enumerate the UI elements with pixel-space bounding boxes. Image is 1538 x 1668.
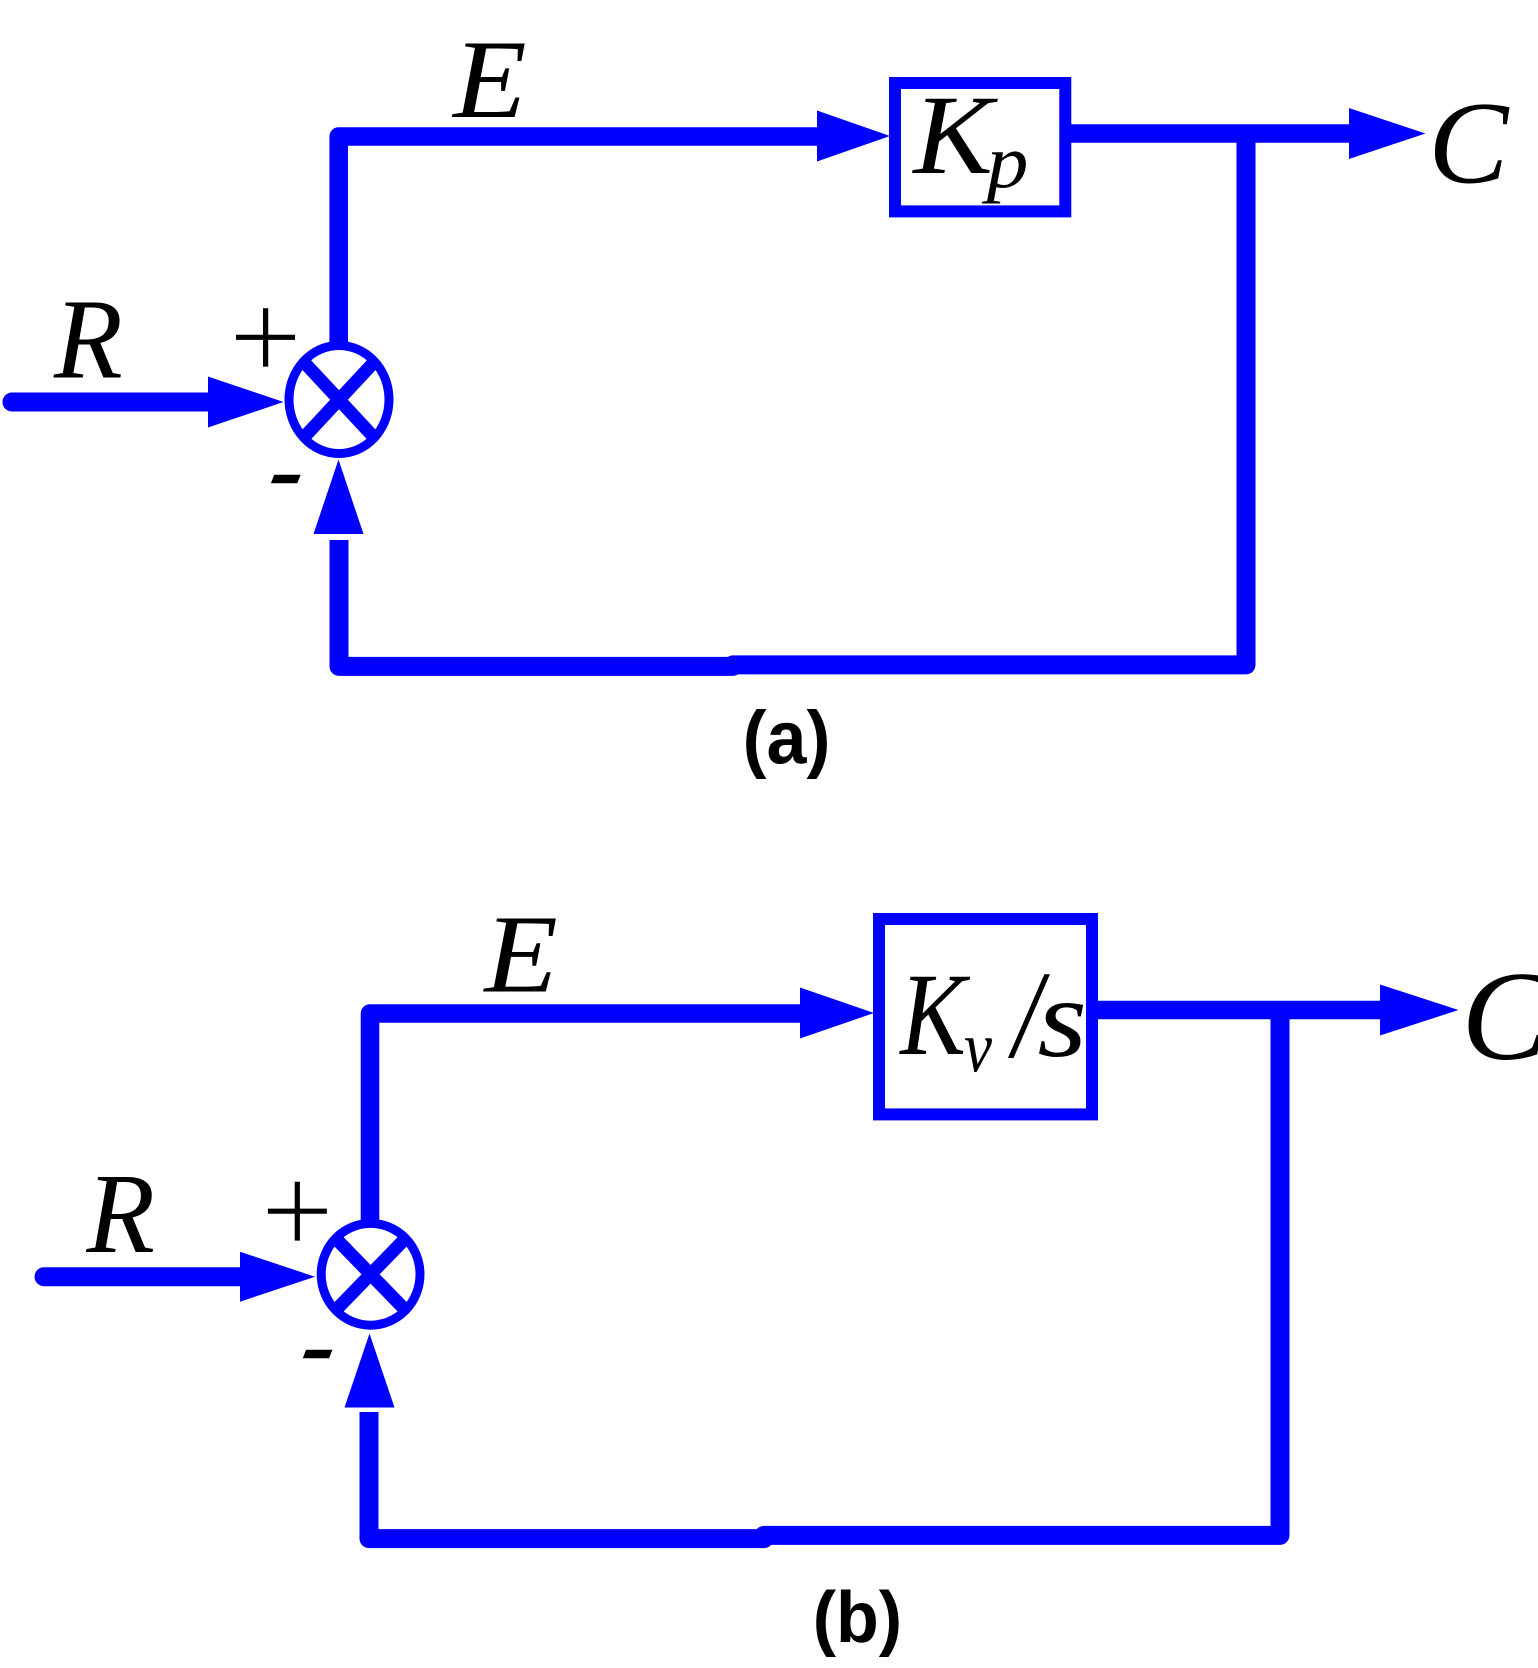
arrowhead to C (a) bbox=[1349, 108, 1426, 159]
svg-text:K: K bbox=[898, 950, 970, 1080]
arrowhead into summing junction (b) bbox=[240, 1252, 315, 1302]
svg-text:R: R bbox=[86, 1151, 155, 1277]
svg-text:E: E bbox=[482, 893, 557, 1016]
svg-text:C: C bbox=[1461, 945, 1538, 1087]
minus sign (a) bbox=[271, 475, 301, 484]
arrowhead feedback into summer (a) bbox=[314, 460, 364, 535]
svg-text:K: K bbox=[911, 72, 998, 198]
wire Kp output to C (a) bbox=[1065, 124, 1352, 143]
svg-text:s: s bbox=[1038, 956, 1087, 1081]
wire R input (a) bbox=[12, 393, 212, 412]
wire R input (b) bbox=[44, 1267, 244, 1286]
svg-text:(a): (a) bbox=[743, 696, 831, 780]
wire E vertical+horizontal from summer to Kv/s (b) bbox=[370, 1014, 804, 1236]
wire E vertical+horizontal from summer to Kp (a) bbox=[339, 137, 820, 361]
svg-text:C: C bbox=[1428, 78, 1510, 209]
plus sign (b) bbox=[268, 1182, 327, 1241]
minus sign (b) bbox=[303, 1350, 333, 1359]
arrowhead into summing junction (a) bbox=[208, 377, 284, 428]
summing junction S2 (b) bbox=[321, 1223, 420, 1325]
svg-text:v: v bbox=[964, 1007, 993, 1087]
svg-text:p: p bbox=[982, 120, 1029, 204]
summing junction S1 (a) bbox=[289, 346, 389, 454]
integrator block Kv/s (b) bbox=[879, 919, 1092, 1114]
arrowhead feedback into summer (b) bbox=[345, 1334, 395, 1408]
wire feedback loop (a) bbox=[339, 134, 1246, 667]
gain block Kp (a) bbox=[895, 83, 1065, 211]
svg-text:E: E bbox=[451, 17, 526, 142]
svg-text:(b): (b) bbox=[813, 1577, 902, 1658]
arrowhead to C (b) bbox=[1380, 985, 1459, 1036]
plus sign (a) bbox=[236, 308, 295, 366]
svg-text:R: R bbox=[53, 276, 123, 403]
arrowhead into Kv/s box (b) bbox=[800, 988, 874, 1039]
wire feedback loop (b) bbox=[369, 1010, 1280, 1539]
wire Kv/s output to C (b) bbox=[1092, 1001, 1383, 1020]
arrowhead into Kp box (a) bbox=[817, 111, 890, 162]
